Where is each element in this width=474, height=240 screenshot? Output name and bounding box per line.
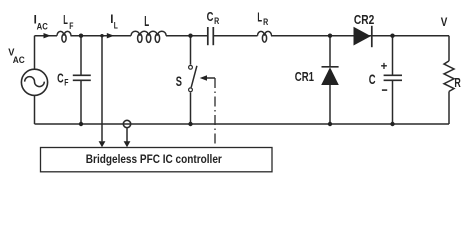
svg-text:C: C: [57, 71, 64, 85]
svg-text:F: F: [69, 21, 74, 31]
svg-text:+: +: [381, 61, 388, 73]
svg-text:Bridgeless PFC IC controller: Bridgeless PFC IC controller: [86, 152, 222, 166]
svg-text:AC: AC: [13, 55, 25, 65]
svg-text:R: R: [454, 75, 461, 90]
svg-text:L: L: [144, 13, 149, 30]
svg-text:CR1: CR1: [295, 69, 314, 84]
svg-text:AC: AC: [37, 22, 49, 32]
svg-text:C: C: [207, 9, 214, 24]
svg-text:V: V: [441, 15, 448, 29]
svg-text:C: C: [369, 72, 376, 87]
svg-text:S: S: [176, 74, 182, 89]
svg-text:L: L: [114, 21, 118, 31]
svg-text:F: F: [64, 78, 69, 88]
svg-text:CR2: CR2: [354, 12, 374, 27]
svg-text:L: L: [63, 12, 68, 27]
svg-text:L: L: [257, 10, 262, 25]
svg-text:R: R: [214, 16, 219, 26]
svg-text:R: R: [263, 17, 268, 27]
